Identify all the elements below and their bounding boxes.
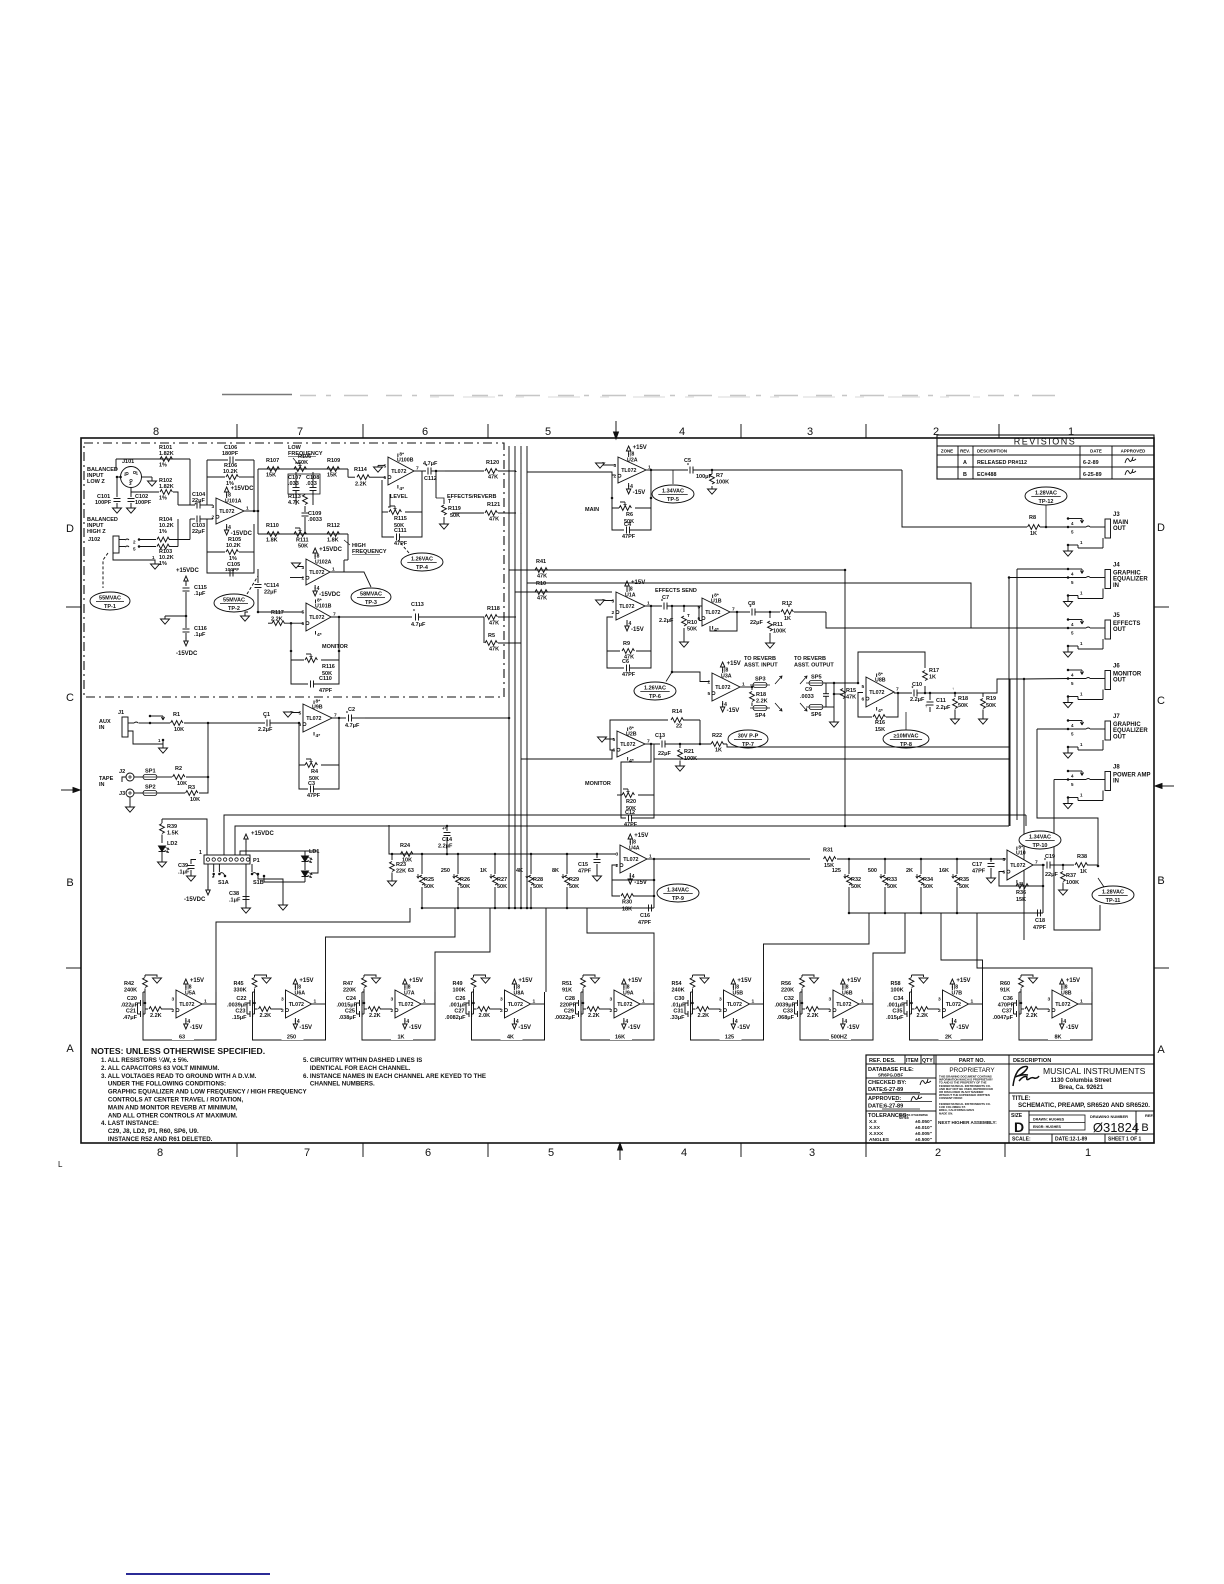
svg-text:D: D xyxy=(66,523,74,535)
svg-text:J1: J1 xyxy=(118,710,124,716)
EQ block 2K op-amp U7B xyxy=(943,990,969,1018)
svg-text:8: 8 xyxy=(228,493,231,499)
svg-text:U6A: U6A xyxy=(295,991,306,997)
svg-text:4: 4 xyxy=(735,1019,738,1025)
ground rail mid xyxy=(185,615,188,618)
svg-text:Brea, Ca. 92621: Brea, Ca. 92621 xyxy=(1059,1085,1104,1091)
svg-text:TL072: TL072 xyxy=(715,685,730,691)
svg-text:REF.: REF. xyxy=(1145,1113,1154,1118)
svg-text:10.2K: 10.2K xyxy=(226,543,241,549)
EQ block 4K feedback box xyxy=(472,992,545,1040)
resistor R11 xyxy=(769,611,772,614)
svg-text:R41: R41 xyxy=(536,559,546,565)
capacitor C9 xyxy=(824,682,834,684)
svg-text:±0.050": ±0.050" xyxy=(915,1119,932,1125)
svg-text:50K: 50K xyxy=(923,884,933,890)
svg-text:ITEM: ITEM xyxy=(906,1058,918,1064)
svg-text:16K: 16K xyxy=(939,868,949,874)
svg-text:47K: 47K xyxy=(488,475,498,481)
svg-text:U5A: U5A xyxy=(185,991,196,997)
wire U2A inv from bus xyxy=(527,472,615,475)
svg-text:-15V: -15V xyxy=(190,1025,203,1031)
svg-text:4*: 4* xyxy=(317,632,322,638)
svg-text:DRAWING NUMBER: DRAWING NUMBER xyxy=(1090,1114,1128,1119)
test point TP-11 xyxy=(1092,886,1134,904)
svg-text:100PF: 100PF xyxy=(135,500,152,506)
wire effects bus row xyxy=(509,569,845,571)
svg-text:6-25-89: 6-25-89 xyxy=(1083,472,1102,478)
svg-text:8K: 8K xyxy=(1054,1035,1061,1041)
wire R101 right xyxy=(173,458,190,460)
resistor R10 50K xyxy=(683,605,686,608)
power -15VDC at P1 xyxy=(207,864,209,888)
svg-text:C35: C35 xyxy=(892,1009,902,1015)
svg-text:240K: 240K xyxy=(124,988,137,994)
svg-text:-15V: -15V xyxy=(631,627,644,633)
svg-text:2.2K: 2.2K xyxy=(1026,1013,1038,1019)
svg-text:8: 8 xyxy=(317,554,320,560)
EQ block 16K output wire xyxy=(640,1003,654,1005)
svg-text:TP-12: TP-12 xyxy=(1039,499,1054,505)
ground J2 J3 xyxy=(129,797,131,807)
svg-text:R20: R20 xyxy=(626,799,636,805)
svg-text:3: 3 xyxy=(391,996,394,1002)
wire J4 feed xyxy=(1009,577,1068,579)
svg-text:4: 4 xyxy=(187,1019,190,1025)
svg-text:MONITOR: MONITOR xyxy=(1113,672,1142,678)
svg-text:-15V: -15V xyxy=(628,1025,641,1031)
pot R20 xyxy=(621,744,651,795)
svg-text:†: † xyxy=(925,703,927,708)
svg-text:2.2μF: 2.2μF xyxy=(258,727,273,733)
ground U101B ref xyxy=(245,612,248,616)
svg-text:2: 2 xyxy=(302,576,305,582)
svg-text:U6B: U6B xyxy=(842,991,853,997)
svg-text:1.34VAC: 1.34VAC xyxy=(1029,835,1051,841)
svg-text:UNDER THE FOLLOWING CONDITIONS: UNDER THE FOLLOWING CONDITIONS: xyxy=(101,1081,226,1088)
wire U4A inv loop xyxy=(612,865,654,880)
svg-text:6-2-89: 6-2-89 xyxy=(1083,460,1099,466)
connector J6 jack xyxy=(1067,669,1070,672)
svg-text:|8: |8 xyxy=(516,985,520,991)
EQ block 1K label xyxy=(391,1032,413,1040)
svg-text:1%: 1% xyxy=(159,496,167,502)
svg-text:4: 4 xyxy=(1063,1019,1066,1025)
resistor R38 xyxy=(1063,864,1074,866)
capacitor C18 xyxy=(1042,885,1045,888)
svg-text:.033: .033 xyxy=(306,481,317,487)
svg-text:R10: R10 xyxy=(687,620,697,626)
svg-text:R121: R121 xyxy=(487,502,500,508)
wire J6 down xyxy=(1023,679,1025,941)
svg-text:R24: R24 xyxy=(400,843,411,849)
svg-text:125: 125 xyxy=(725,1035,734,1041)
resistor R12 xyxy=(770,611,780,613)
svg-text:2: 2 xyxy=(612,610,615,616)
svg-text:+15VDC: +15VDC xyxy=(251,831,275,837)
svg-text:ASST. INPUT: ASST. INPUT xyxy=(744,663,778,669)
svg-text:SP1: SP1 xyxy=(145,769,156,775)
svg-text:8K: 8K xyxy=(552,868,559,874)
svg-text:-15V: -15V xyxy=(634,880,647,886)
svg-text:2.2K: 2.2K xyxy=(369,1013,381,1019)
svg-text:R39: R39 xyxy=(167,824,177,830)
svg-text:LEVEL: LEVEL xyxy=(390,494,408,500)
svg-text:REV.: REV. xyxy=(960,449,970,454)
svg-text:U3A: U3A xyxy=(721,674,732,680)
capacitor C7 xyxy=(663,603,665,610)
svg-text:OUT: OUT xyxy=(1113,627,1126,633)
svg-text:2: 2 xyxy=(719,1008,722,1014)
capacitor C13 xyxy=(661,741,663,748)
svg-text:.33μF: .33μF xyxy=(670,1015,685,1021)
svg-text:4: 4 xyxy=(406,1019,409,1025)
svg-text:C: C xyxy=(66,692,74,704)
svg-text:S1A: S1A xyxy=(218,880,229,886)
svg-text:U10: U10 xyxy=(1016,851,1026,857)
svg-text:50K: 50K xyxy=(569,884,579,890)
svg-text:TL072: TL072 xyxy=(219,509,234,515)
wire C101 node xyxy=(116,477,118,486)
svg-text:GRAPHIC EQUALIZER AND LOW FREQ: GRAPHIC EQUALIZER AND LOW FREQUENCY / HI… xyxy=(101,1089,307,1096)
wire monitor long xyxy=(727,744,1010,747)
svg-text:1: 1 xyxy=(152,555,155,560)
EQ block 500HZ label xyxy=(829,1032,851,1040)
svg-text:R18: R18 xyxy=(958,696,968,702)
wire U10 inv loop xyxy=(999,872,1043,887)
svg-text:R36: R36 xyxy=(1016,890,1026,896)
EQ block 8K feedback box xyxy=(1019,992,1092,1040)
wire right area extras xyxy=(527,583,971,628)
svg-text:*: * xyxy=(912,686,914,692)
svg-text:R14: R14 xyxy=(672,709,683,715)
svg-text:47K: 47K xyxy=(489,647,499,653)
resistor R18 2.2K xyxy=(751,686,754,689)
svg-text:PART NO.: PART NO. xyxy=(959,1058,986,1064)
svg-text:6. INSTANCE NAMES IN EACH CHAN: 6. INSTANCE NAMES IN EACH CHANNEL ARE KE… xyxy=(303,1073,486,1080)
svg-text:4: 4 xyxy=(724,702,727,708)
svg-text:A: A xyxy=(963,460,967,466)
test point TP-8 xyxy=(883,730,929,748)
connector J3 jack xyxy=(1067,517,1070,520)
svg-text:6: 6 xyxy=(384,475,387,481)
EQ block 4K output wire xyxy=(531,1003,545,1005)
svg-text:R110: R110 xyxy=(266,523,279,529)
EQ block 1K feedback box xyxy=(362,992,435,1040)
EQ block 125 label xyxy=(720,1032,742,1040)
test point TP-5 xyxy=(652,485,694,503)
zone ticks left xyxy=(66,606,81,608)
EQ block 250 op-amp U6A xyxy=(286,990,312,1018)
svg-text:DRAWN: HUGHES: DRAWN: HUGHES xyxy=(1033,1118,1065,1122)
svg-text:2: 2 xyxy=(935,1147,941,1159)
svg-text:C26: C26 xyxy=(455,996,465,1002)
svg-text:GRAPHIC: GRAPHIC xyxy=(1113,571,1141,577)
svg-text:5: 5 xyxy=(545,426,551,438)
svg-text:.1μF: .1μF xyxy=(178,870,190,876)
wire U102A inputs xyxy=(347,534,349,560)
svg-text:8: 8 xyxy=(157,1147,163,1159)
capacitor C2 xyxy=(348,715,350,722)
svg-text:330K: 330K xyxy=(234,988,247,994)
svg-text:C27: C27 xyxy=(454,1009,464,1015)
svg-text:1: 1 xyxy=(199,850,202,856)
svg-text:R32: R32 xyxy=(851,877,861,883)
svg-text:B: B xyxy=(1157,875,1164,887)
svg-text:1.34VAC: 1.34VAC xyxy=(667,888,689,894)
svg-text:180PF: 180PF xyxy=(222,451,239,457)
svg-text:3: 3 xyxy=(616,851,619,857)
EQ block 16K label xyxy=(610,1032,632,1040)
svg-text:+15V: +15V xyxy=(633,445,647,451)
svg-text:2: 2 xyxy=(212,515,215,521)
wire U10 out xyxy=(1033,864,1045,866)
svg-text:R107: R107 xyxy=(266,458,279,464)
svg-text:-15V: -15V xyxy=(727,708,740,714)
svg-text:TL072: TL072 xyxy=(1055,1002,1070,1008)
svg-text:SCALE:: SCALE: xyxy=(1012,1137,1031,1143)
svg-text:C2: C2 xyxy=(348,707,355,713)
pot R111 50K xyxy=(294,532,306,537)
svg-text:±0.010": ±0.010" xyxy=(915,1125,932,1131)
svg-text:7: 7 xyxy=(304,1147,310,1159)
svg-text:U102A: U102A xyxy=(315,560,332,566)
svg-text:3: 3 xyxy=(610,996,613,1002)
svg-text:+15V: +15V xyxy=(190,978,204,984)
svg-text:*: * xyxy=(1044,858,1046,864)
EQ block 63 feedback box xyxy=(143,992,216,1040)
svg-text:3: 3 xyxy=(614,463,617,469)
svg-text:FREQUENCY: FREQUENCY xyxy=(352,549,387,555)
svg-text:NOTED: NOTED xyxy=(899,1116,909,1120)
zone arrow top xyxy=(615,421,617,433)
svg-text:6: 6 xyxy=(862,697,865,703)
resistor R110 xyxy=(267,532,279,537)
svg-text:TL072: TL072 xyxy=(869,690,884,696)
svg-text:22K: 22K xyxy=(396,869,406,875)
svg-text:R17: R17 xyxy=(929,668,939,674)
svg-text:C110: C110 xyxy=(319,676,332,682)
svg-text:R114: R114 xyxy=(354,467,368,473)
svg-text:TL072: TL072 xyxy=(391,469,406,475)
svg-text:C: C xyxy=(1157,695,1165,707)
resistor R33 50K xyxy=(884,858,887,861)
svg-text:MUSICAL INSTRUMENTS: MUSICAL INSTRUMENTS xyxy=(1043,1066,1146,1076)
resistor R103 xyxy=(139,546,156,548)
svg-text:X.XXX: X.XXX xyxy=(869,1131,884,1137)
svg-text:EQUALIZER: EQUALIZER xyxy=(1113,728,1148,734)
svg-text:1.26VAC: 1.26VAC xyxy=(644,686,666,692)
svg-text:4: 4 xyxy=(516,1019,519,1025)
svg-text:R119: R119 xyxy=(448,506,461,512)
svg-text:3: 3 xyxy=(829,996,832,1002)
svg-text:C34: C34 xyxy=(893,996,904,1002)
op-amp U2B xyxy=(617,731,645,757)
svg-text:DATE: DATE xyxy=(1090,449,1102,454)
svg-text:R19: R19 xyxy=(986,696,996,702)
wire ladder A input xyxy=(389,826,616,854)
svg-text:QTY: QTY xyxy=(922,1058,933,1064)
EQ block 63 label xyxy=(172,1032,194,1040)
resistor R31 xyxy=(824,857,836,862)
svg-text:EQUALIZER: EQUALIZER xyxy=(1113,577,1148,583)
svg-text:TL072: TL072 xyxy=(289,1002,304,1008)
ground U1A noninv xyxy=(603,599,613,601)
svg-text:MAIN: MAIN xyxy=(1113,520,1128,526)
svg-text:3: 3 xyxy=(719,996,722,1002)
svg-text:|8: |8 xyxy=(844,985,848,991)
switch S1B xyxy=(251,864,253,872)
capacitor C3 xyxy=(299,765,308,789)
svg-text:.068μF: .068μF xyxy=(777,1015,795,1021)
svg-text:2.2K: 2.2K xyxy=(260,1013,272,1019)
resistor R19 50K xyxy=(955,692,983,694)
test point TP-7 xyxy=(728,730,768,748)
svg-text:|8: |8 xyxy=(632,840,636,846)
resistor R2 xyxy=(173,775,185,780)
svg-text:7: 7 xyxy=(297,426,303,438)
wire U100B out to R120 xyxy=(445,470,484,472)
svg-text:J102: J102 xyxy=(88,537,100,543)
svg-text:U2A: U2A xyxy=(627,458,638,464)
svg-text:IN: IN xyxy=(99,725,105,731)
svg-text:ZONE: ZONE xyxy=(941,449,953,454)
svg-text:R7: R7 xyxy=(716,473,723,479)
svg-text:R45: R45 xyxy=(234,981,244,987)
svg-text:+15V: +15V xyxy=(634,833,648,839)
EQ block 1K resistor R46 xyxy=(364,1008,367,1010)
wire R39 top xyxy=(162,819,207,855)
scan smudge top xyxy=(222,394,292,396)
svg-text:4.7K: 4.7K xyxy=(288,500,300,506)
resistor R8 xyxy=(1028,525,1040,530)
svg-text:2.0K: 2.0K xyxy=(479,1013,491,1019)
svg-text:C28: C28 xyxy=(565,996,575,1002)
svg-text:50K: 50K xyxy=(959,884,969,890)
svg-text:R25: R25 xyxy=(424,877,434,883)
resistor R120 xyxy=(485,469,497,474)
zone ticks top xyxy=(236,424,238,438)
resistor R23 xyxy=(391,853,394,856)
svg-text:*: * xyxy=(788,605,790,611)
svg-text:C6: C6 xyxy=(622,659,629,665)
svg-text:APPROVED: APPROVED xyxy=(1121,449,1146,454)
svg-text:D: D xyxy=(1014,1119,1024,1135)
wire J8 feed xyxy=(1054,779,1068,781)
svg-text:C14: C14 xyxy=(442,837,453,843)
svg-text:RELEASED PR#112: RELEASED PR#112 xyxy=(977,460,1027,466)
svg-text:6-27-89: 6-27-89 xyxy=(884,1087,903,1093)
svg-text:C29, J8, LD2, P1, R60, SP6, U9: C29, J8, LD2, P1, R60, SP6, U9. xyxy=(101,1128,199,1135)
svg-text:*: * xyxy=(413,609,415,615)
svg-text:1: 1 xyxy=(136,471,139,476)
svg-text:55MVAC: 55MVAC xyxy=(223,598,245,604)
svg-text:-15VDC: -15VDC xyxy=(319,592,341,598)
svg-text:6: 6 xyxy=(425,1147,431,1159)
svg-text:10K: 10K xyxy=(174,727,184,733)
svg-text:+15V: +15V xyxy=(956,978,970,984)
connector J7 jack xyxy=(1067,719,1070,722)
resistor R17 xyxy=(924,686,926,693)
svg-text:100PF: 100PF xyxy=(225,567,239,573)
svg-text:1K: 1K xyxy=(397,1035,404,1041)
svg-text:R54: R54 xyxy=(672,981,683,987)
EQ block 8K op-amp U8B xyxy=(1052,990,1078,1018)
op-amp U101A xyxy=(216,498,244,524)
zone ticks right xyxy=(1154,606,1169,608)
svg-text:R115: R115 xyxy=(394,516,407,522)
svg-text:4: 4 xyxy=(625,1019,628,1025)
svg-text:CHANNEL NUMBERS.: CHANNEL NUMBERS. xyxy=(303,1081,375,1088)
svg-text:HIGH Z: HIGH Z xyxy=(87,529,106,535)
svg-text:500HZ: 500HZ xyxy=(831,1035,848,1041)
test point TP-10 xyxy=(1019,831,1061,849)
svg-text:2: 2 xyxy=(610,1008,613,1014)
svg-text:22μF: 22μF xyxy=(192,529,205,535)
shield SP3 xyxy=(753,682,767,687)
svg-text:REF. DES.: REF. DES. xyxy=(869,1058,896,1064)
svg-text:R15: R15 xyxy=(846,688,856,694)
svg-text:4: 4 xyxy=(679,426,685,438)
shield SP4 xyxy=(753,705,767,710)
svg-text:TL072: TL072 xyxy=(1010,863,1025,869)
resistor R109 xyxy=(327,467,339,472)
svg-text:|8: |8 xyxy=(724,668,728,674)
svg-text:6: 6 xyxy=(422,426,428,438)
svg-text:100PF: 100PF xyxy=(95,500,112,506)
op-amp U10 xyxy=(1007,850,1033,880)
resistor R114 xyxy=(357,475,369,480)
op-amp U2A xyxy=(618,457,646,483)
svg-text:C7: C7 xyxy=(662,595,669,601)
svg-text:2.2K: 2.2K xyxy=(917,1013,929,1019)
svg-text:C22: C22 xyxy=(236,996,246,1002)
svg-text:.015μF: .015μF xyxy=(886,1015,904,1021)
resistor R10 xyxy=(535,590,547,595)
resistor R26 50K xyxy=(457,853,460,856)
EQ block 1K output wire xyxy=(421,1003,435,1005)
arrows reverb send xyxy=(775,676,782,684)
svg-text:5: 5 xyxy=(133,547,136,552)
svg-text:30V P-P: 30V P-P xyxy=(738,734,759,740)
svg-text:U100B: U100B xyxy=(397,458,414,464)
svg-text:R23: R23 xyxy=(396,862,406,868)
svg-text:4: 4 xyxy=(632,874,635,880)
EQ block 125 ground xyxy=(693,975,705,977)
svg-text:8*: 8* xyxy=(629,726,634,732)
svg-text:T: T xyxy=(687,613,690,618)
svg-text:IN: IN xyxy=(1113,779,1119,785)
resistor R25 50K xyxy=(421,853,424,856)
wire J7 feed xyxy=(1037,728,1068,730)
capacitor C111 xyxy=(382,512,394,537)
svg-text:1.28VAC: 1.28VAC xyxy=(1035,491,1057,497)
svg-text:L: L xyxy=(58,1160,63,1169)
svg-text:C19: C19 xyxy=(1045,854,1055,860)
svg-text:220K: 220K xyxy=(343,988,356,994)
svg-text:DATE:12-1-89: DATE:12-1-89 xyxy=(1055,1137,1087,1143)
svg-text:U5B: U5B xyxy=(733,991,744,997)
svg-text:TL072: TL072 xyxy=(309,615,324,621)
svg-text:C31: C31 xyxy=(673,1009,683,1015)
svg-text:2: 2 xyxy=(708,679,711,685)
capacitor C113 xyxy=(415,614,417,621)
pot R119 50K vertical xyxy=(435,471,437,498)
svg-text:LOW Z: LOW Z xyxy=(87,479,105,485)
pot R106 50K xyxy=(294,467,306,472)
svg-text:100K: 100K xyxy=(453,988,466,994)
svg-text:8: 8 xyxy=(153,426,159,438)
